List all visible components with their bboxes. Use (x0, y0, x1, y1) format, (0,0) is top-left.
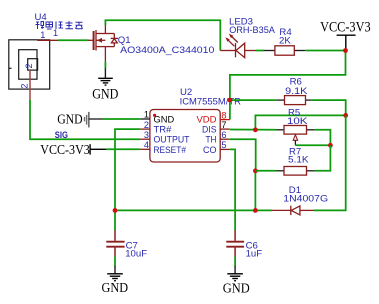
svg-text:2K: 2K (279, 36, 291, 47)
antenna U4 (spiral symbol) (9, 40, 50, 89)
wire: D1 anode to VCC-side vertical (314, 115, 346, 210)
U2 pin 4 stub (140, 148, 150, 150)
U2 pin 1 stub (140, 118, 150, 120)
svg-text:VCC-3V3: VCC-3V3 (40, 143, 90, 158)
svg-text:6: 6 (221, 130, 226, 140)
svg-text:GND: GND (223, 281, 250, 296)
U4 comment label 舒曼波天线 (drawn strokes) (36, 21, 83, 29)
wire: SIG net (antenna pin2 down, right to U2 pin3) (30, 100, 140, 139)
wire: VCC-3V3 port to U2 pin 4 (106, 148, 140, 150)
wire: R4 to VCC junction (305, 50, 345, 52)
svg-text:10K: 10K (287, 116, 308, 127)
power port VCC-3V3 (top right) (337, 35, 356, 50)
ground symbol below C6 (227, 274, 243, 281)
junction DIS / R5 left (253, 127, 258, 132)
wire: R5 wiper to junction (295, 144, 330, 146)
svg-text:1: 1 (53, 28, 58, 38)
wire: R5 right end down (315, 130, 331, 146)
resistor R7 (277, 167, 315, 176)
U4 pin 1 lead (37, 39, 58, 41)
svg-text:AO3400A_C344010: AO3400A_C344010 (120, 45, 214, 56)
diode D1 (272, 206, 315, 215)
U2 pin 3 stub (140, 138, 150, 140)
wire: GND port to U2 pin 1 (103, 118, 141, 120)
junction DIS link right (343, 113, 348, 118)
wire: U2 pin 6 (TH) right and down to R7 row (230, 139, 256, 171)
svg-text:5.1K: 5.1K (288, 154, 309, 165)
svg-text:RESET#: RESET# (154, 145, 187, 156)
U2 pin 8 stub (220, 119, 230, 121)
junction VCC node (343, 48, 348, 53)
wire: R6 left to VDD vertical (230, 99, 276, 101)
wire: antenna pin1 to Q1 gate (58, 39, 89, 41)
junction rail / C7 (113, 208, 118, 213)
svg-text:1: 1 (144, 110, 149, 120)
wire: wiper junction down to R7 right (315, 145, 331, 171)
wire: bottom rail (115, 209, 272, 211)
junction at VDD / R6 (228, 98, 233, 103)
wire: Q1 drain up and right to LED3 (105, 20, 220, 50)
svg-text:8: 8 (221, 110, 226, 120)
svg-text:2: 2 (19, 83, 29, 88)
svg-text:CO: CO (203, 145, 217, 156)
LED3 (220, 34, 255, 58)
U2 pin 2 stub (140, 128, 150, 130)
ground symbol below C7 (107, 274, 123, 281)
capacitor C7 (106, 230, 124, 256)
power port GND (left, at U2 pin 1) (85, 112, 89, 128)
wire: U2 pin 2 (TR#) left and down to bottom rail (115, 129, 140, 231)
svg-text:7: 7 (221, 120, 226, 130)
svg-text:ICM7555M/TR: ICM7555M/TR (180, 96, 241, 107)
svg-text:2: 2 (144, 120, 149, 130)
junction rail / TH vertical (253, 208, 258, 213)
svg-text:1: 1 (40, 30, 45, 40)
potentiometer R5 (277, 126, 315, 146)
svg-text:3: 3 (144, 130, 149, 140)
svg-text:1N4007G: 1N4007G (283, 194, 328, 205)
svg-text:10uF: 10uF (125, 248, 147, 259)
wire: TH vertical down to bottom rail (254, 171, 256, 211)
wire: R6 right, down to DIS-rail junction (312, 100, 346, 115)
wire: LED3 to R4 (256, 50, 265, 52)
svg-text:GND: GND (102, 281, 129, 296)
U2 pin 6 stub (220, 138, 230, 140)
wire: horizontal DIS link y=115.4 (255, 115, 345, 129)
IC U2 ICM7555M/TR (150, 110, 220, 163)
power port VCC-3V3 (left, at U2 pin 4) (90, 144, 106, 154)
ground symbol below Q1 (98, 78, 113, 85)
resistor R6 (276, 96, 312, 105)
wire: R7 left (255, 170, 276, 172)
svg-text:1uF: 1uF (246, 248, 263, 259)
U2 pin 5 stub (220, 148, 230, 150)
svg-text:2: 2 (24, 63, 34, 68)
junction TH / R7 left (253, 168, 258, 173)
svg-text:4: 4 (144, 140, 149, 150)
wire: U2 pin 7 (DIS) to R5 left (230, 129, 277, 131)
svg-text:VCC-3V3: VCC-3V3 (320, 20, 371, 36)
capacitor C6 (226, 230, 244, 256)
transistor Q1 (NMOS with body diode) (88, 25, 118, 62)
svg-text:5: 5 (221, 140, 226, 150)
svg-text:ORH-B35A: ORH-B35A (229, 25, 275, 36)
wire: Q1 source down (104, 61, 106, 68)
junction wiper node (328, 143, 333, 148)
U2 pin 7 stub (220, 128, 230, 130)
wire: C7 bottom to ground (114, 257, 116, 267)
wire: U2 pin 5 (CO) right and down to C6 (230, 149, 235, 230)
svg-text:GND: GND (92, 86, 118, 102)
resistor R4 (264, 46, 306, 55)
wire: C6 bottom to ground (234, 257, 236, 267)
wire: VCC junction down/left to U2 pin 8 (VDD) (230, 51, 346, 120)
svg-text:SIG: SIG (55, 130, 68, 141)
svg-text:GND: GND (57, 113, 82, 128)
svg-text:9.1K: 9.1K (285, 86, 308, 97)
U4 pin 2 lead (29, 70, 31, 100)
